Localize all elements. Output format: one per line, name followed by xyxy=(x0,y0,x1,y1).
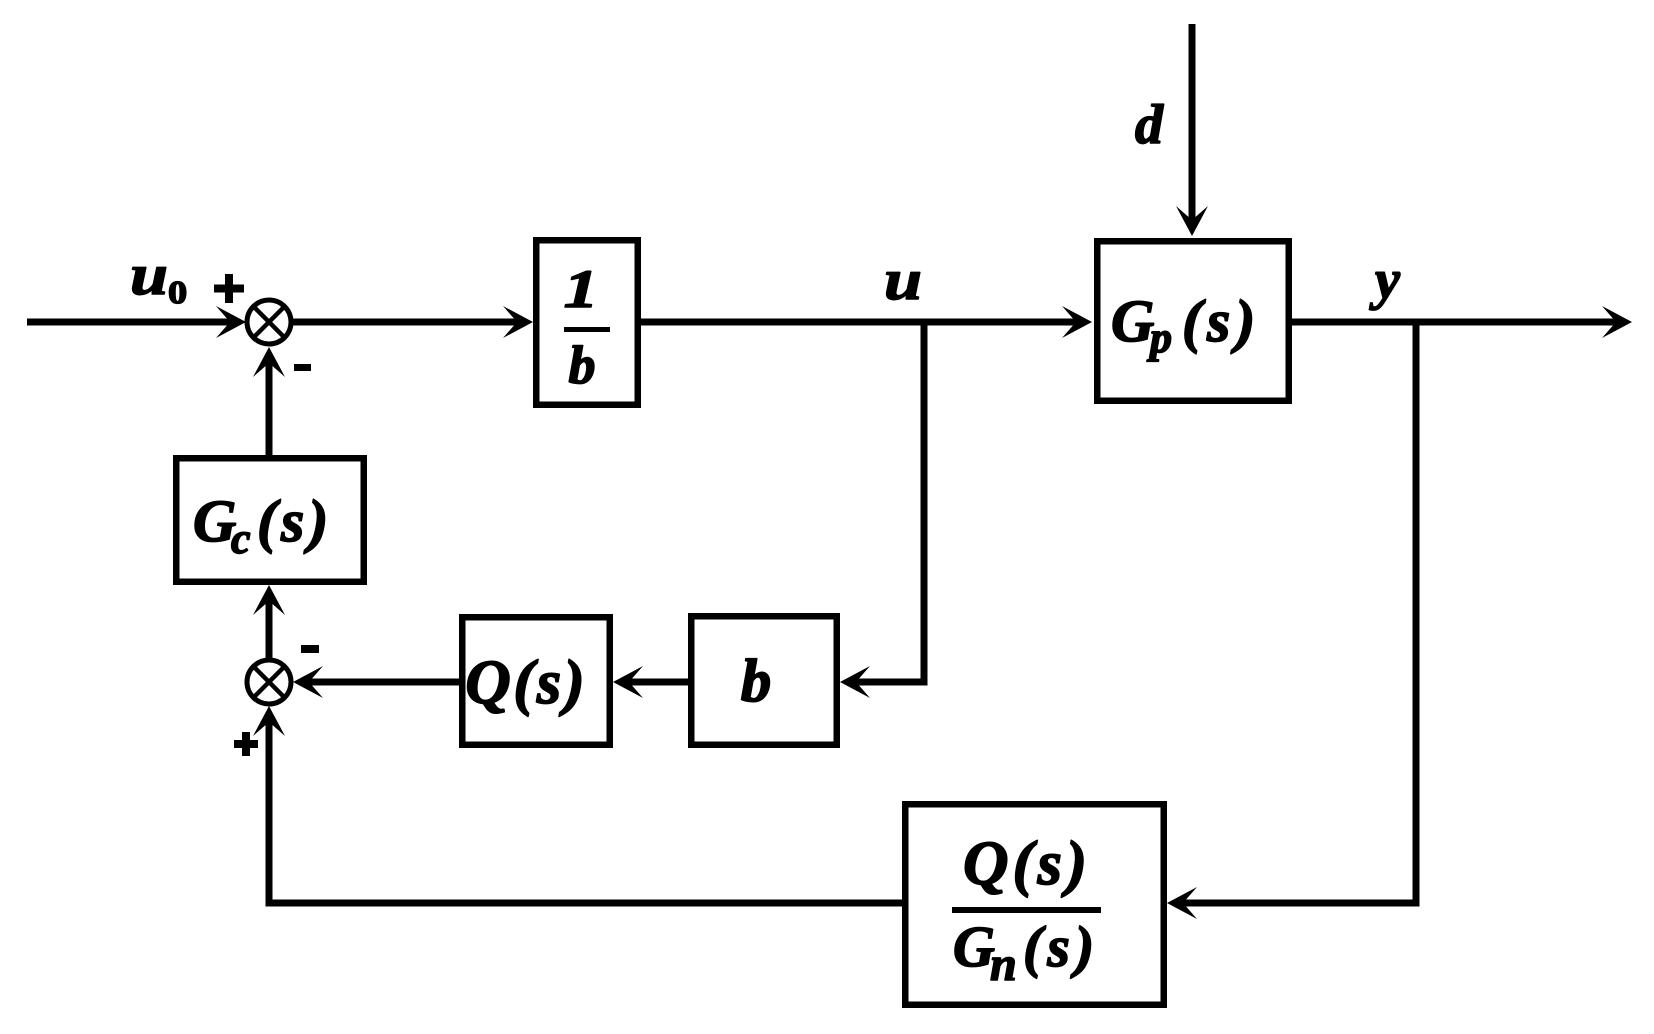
node label y xyxy=(1369,272,1400,310)
arrowhead into S2 from right xyxy=(293,666,323,698)
arrowhead into S1 from below xyxy=(253,347,285,377)
minus sign right of S2 xyxy=(301,645,319,653)
label 1/b denominator b xyxy=(569,346,594,384)
label 1/b numerator 1 xyxy=(565,271,591,307)
arrowhead into Q(s)/Gn(s) xyxy=(1167,887,1197,919)
arrowhead into Q(s) xyxy=(613,666,643,698)
label b xyxy=(742,659,770,702)
wire: input u0 segment xyxy=(27,319,232,326)
label Q(s) xyxy=(468,659,581,716)
wire: b to Q(s) xyxy=(628,679,688,686)
fraction bar of 1/b xyxy=(564,327,610,332)
block Gc(s) xyxy=(176,458,364,582)
arrowhead into 1/b block xyxy=(503,306,533,338)
label Gc(s) xyxy=(195,499,324,553)
block Q(s) xyxy=(462,617,610,745)
summing junction S1 xyxy=(247,300,291,344)
node label d xyxy=(1136,104,1164,143)
summing junction S2 xyxy=(247,660,291,704)
wire: S1 to 1/b block xyxy=(291,319,520,326)
block Gp(s) xyxy=(1097,241,1289,401)
wire: Gc(s) up to S1 xyxy=(266,360,273,455)
wire: y branch to Q(s)/Gn(s) xyxy=(1178,900,1416,907)
wire: Q(s) to S2 xyxy=(305,679,459,686)
arrowhead into summing junction S1 xyxy=(216,306,246,338)
fraction bar of Q(s)/Gn(s) xyxy=(952,907,1101,913)
wire: Gp(s) to output xyxy=(1292,319,1620,326)
wire: disturbance d line xyxy=(1189,24,1196,222)
arrowhead into Gp(s) xyxy=(1062,306,1092,338)
plus sign at S2 xyxy=(234,732,258,756)
node label u xyxy=(887,272,920,299)
wire: S2 up to Gc(s) xyxy=(266,597,273,660)
plus sign at S1 input xyxy=(214,274,244,303)
arrowhead into b xyxy=(840,666,870,698)
wire: Q(s)/Gn(s) output to left xyxy=(266,900,903,907)
block Q(s)/Gn(s) xyxy=(905,804,1164,1005)
wire: u branch down xyxy=(921,322,928,686)
wire: 1/b to Gp(s) xyxy=(641,319,1080,326)
arrowhead into S2 from below xyxy=(253,706,285,736)
label Gp(s) xyxy=(1113,299,1251,361)
wire: up into summing junction S2 xyxy=(266,718,273,903)
arrowhead into Gc(s) xyxy=(253,585,285,615)
label u0 xyxy=(133,267,186,303)
label Q(s) numerator xyxy=(965,840,1083,897)
block 1/b xyxy=(536,240,638,405)
wire: u branch into b xyxy=(852,679,924,686)
arrowhead of d into Gp(s) xyxy=(1176,206,1208,236)
wire: y branch down xyxy=(1413,322,1420,907)
minus sign below S1 xyxy=(294,364,311,371)
output arrowhead xyxy=(1602,306,1632,338)
label Gn(s) denominator xyxy=(955,926,1091,980)
block b xyxy=(691,616,837,745)
